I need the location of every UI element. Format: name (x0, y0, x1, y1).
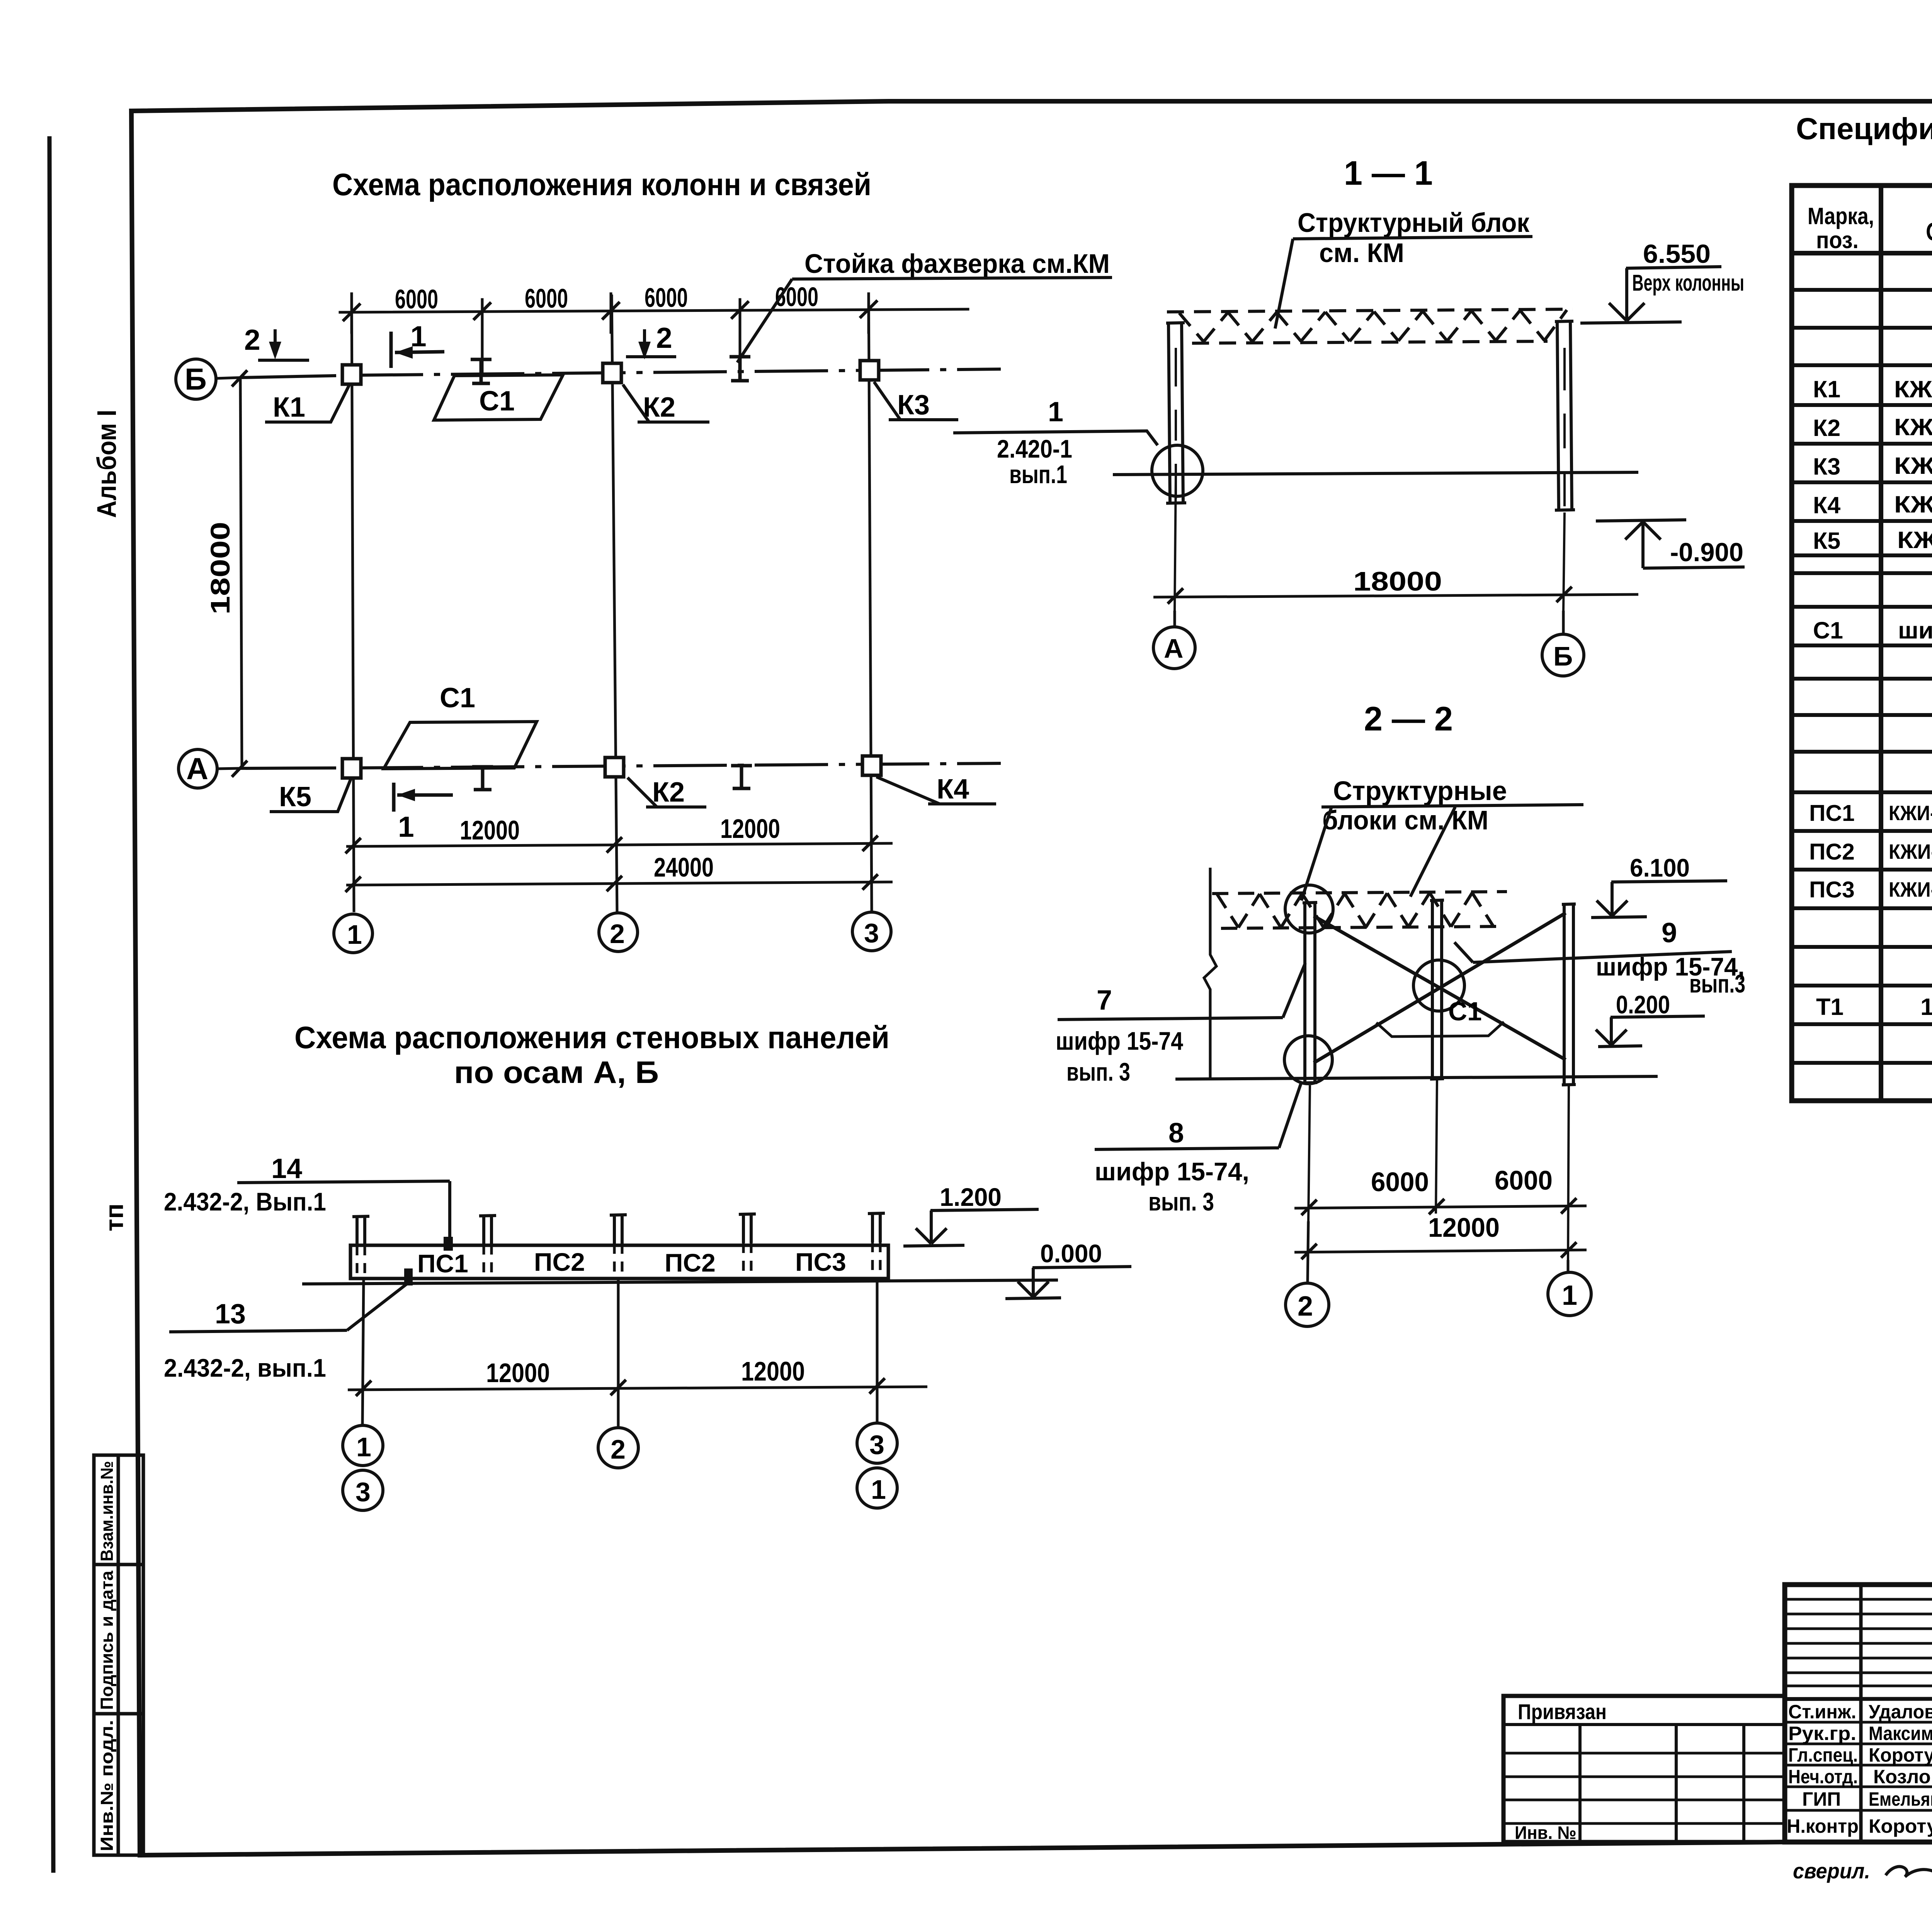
svg-text:К4: К4 (1813, 492, 1840, 518)
svg-text:К2: К2 (652, 777, 685, 808)
row lines (1792, 288, 1932, 292)
svg-text:К3: К3 (897, 390, 930, 421)
truss 2-2 (dashed) (1212, 892, 1507, 928)
upper narrow rows (1785, 1598, 1932, 1601)
inner frame top (131, 101, 1932, 111)
svg-text:6000: 6000 (645, 283, 688, 313)
axis А (bottom) (179, 749, 1001, 788)
svg-text:вып.1: вып.1 (1009, 460, 1067, 489)
vertical grid line axis 2 (612, 295, 617, 912)
sig rows (1785, 1698, 1932, 1699)
svg-text:12000: 12000 (1428, 1212, 1500, 1243)
C1 bracket 2-2 (1376, 1022, 1504, 1037)
svg-text:Спецификация к схемам распо: Спецификация к схемам расположения колон… (1796, 111, 1932, 146)
svg-text:1: 1 (1048, 397, 1063, 427)
svg-text:Емельянов: Емельянов (1869, 1788, 1932, 1810)
svg-text:1 — 1: 1 — 1 (1344, 154, 1433, 192)
svg-text:К3: К3 (1813, 453, 1840, 480)
svg-text:Обозначение: Обозначение (1926, 217, 1932, 246)
svg-text:тп: тп (100, 1204, 128, 1231)
svg-text:Удалова: Удалова (1869, 1701, 1932, 1723)
svg-text:12000: 12000 (720, 814, 780, 844)
svg-text:Подпись и дата: Подпись и дата (97, 1570, 117, 1710)
column K4 (axis 3, А) (862, 756, 881, 775)
svg-text:КЖИ-ПС 635.12-1АIV-Т-11А: КЖИ-ПС 635.12-1АIV-Т-11А (1889, 802, 1932, 825)
svg-text:0.000: 0.000 (1040, 1239, 1102, 1268)
svg-text:1: 1 (356, 1432, 371, 1462)
bottom dimension 12000x2 (346, 843, 893, 846)
svg-text:ПС2: ПС2 (1809, 839, 1855, 865)
svg-text:Верх колонны: Верх колонны (1632, 270, 1744, 296)
column K2 (axis 2, Б) (603, 363, 621, 383)
svg-text:2: 2 (611, 1434, 626, 1464)
svg-text:К5: К5 (1813, 528, 1840, 554)
slash at dim 18000 top (232, 370, 247, 386)
svg-text:А: А (1164, 633, 1184, 664)
dim 12000 (1294, 1250, 1587, 1252)
svg-text:2: 2 (1298, 1291, 1313, 1322)
svg-text:ПС3: ПС3 (795, 1248, 846, 1276)
svg-text:ПС1: ПС1 (417, 1249, 468, 1278)
ground line 2-2 (1175, 1076, 1658, 1079)
svg-text:7: 7 (1097, 985, 1112, 1016)
svg-text:6.100: 6.100 (1630, 853, 1690, 882)
svg-text:Инв. №: Инв. № (1515, 1822, 1577, 1843)
svg-text:3: 3 (864, 918, 879, 948)
dim slashes (344, 305, 359, 320)
svg-text:вып. 3: вып. 3 (1066, 1057, 1130, 1086)
section mark 1 (top) (391, 332, 444, 368)
svg-text:К1: К1 (1813, 376, 1840, 402)
column A (section 1-1) with base circle (1152, 323, 1203, 503)
fachwerk post symbols on axis А (472, 766, 752, 790)
inner frame left (131, 111, 140, 1855)
svg-text:КЖИ- КБП 48- 3-3: КЖИ- КБП 48- 3-3 (1894, 453, 1932, 479)
svg-text:2.432-2, Вып.1: 2.432-2, Вып.1 (164, 1187, 326, 1216)
svg-text:Альбом I: Альбом I (92, 410, 122, 518)
svg-text:Козлов: Козлов (1873, 1766, 1932, 1788)
column K3 (860, 361, 879, 380)
svg-text:12000: 12000 (741, 1356, 805, 1386)
section mark 1 (bottom, near K5) (394, 783, 453, 812)
svg-text:3: 3 (869, 1430, 884, 1460)
svg-text:вып. 3: вып. 3 (1148, 1187, 1214, 1216)
svg-text:Максимов: Максимов (1869, 1723, 1932, 1744)
left reference line with break (2-2) (1204, 868, 1216, 1078)
section mark 2 (top left) (258, 329, 309, 360)
C1 parallelogram on axis Б (434, 375, 563, 420)
svg-text:С1: С1 (1813, 617, 1843, 644)
svg-text:Марка,: Марка, (1808, 203, 1874, 229)
svg-text:2: 2 (656, 322, 672, 354)
bottom dimension 24000 (346, 882, 893, 885)
svg-text:КЖИ- ПС 600,12-1АIV-Т-1А: КЖИ- ПС 600,12-1АIV-Т-1А (1889, 840, 1932, 863)
svg-text:2 — 2: 2 — 2 (1364, 700, 1453, 738)
panel band (350, 1245, 888, 1279)
svg-text:поз.: поз. (1816, 227, 1859, 253)
svg-text:Н.контр: Н.контр (1787, 1815, 1859, 1837)
svg-text:-0.900: -0.900 (1670, 538, 1743, 567)
svg-text:Т1: Т1 (1816, 994, 1844, 1020)
LEFT SIDE VERTICAL TABLE (94, 1455, 143, 1855)
inner frame bottom (140, 1842, 1932, 1855)
18000 vertical dimension (240, 379, 242, 769)
svg-text:Схема расположения колонн и: Схема расположения колонн и связей (332, 167, 871, 202)
ground line (302, 1280, 1058, 1284)
header bottom (1792, 251, 1932, 255)
vertical grid line axis 3 (869, 295, 872, 912)
svg-text:12000: 12000 (460, 815, 520, 845)
svg-text:шифр 15-74: шифр 15-74 (1056, 1027, 1183, 1055)
svg-text:1: 1 (398, 810, 414, 843)
svg-text:К5: К5 (279, 781, 311, 812)
svg-text:Б: Б (185, 362, 207, 396)
axis circles А Б (1-1) (1173, 611, 1176, 627)
svg-text:К1: К1 (273, 392, 305, 423)
column K2 (axis 2, А) (605, 758, 624, 777)
svg-text:К2: К2 (1813, 415, 1840, 441)
column K5 (axis 1, А) (342, 759, 361, 778)
svg-text:3: 3 (355, 1477, 371, 1507)
connection circles 2-2 (1284, 885, 1464, 1084)
svg-text:по осам А, Б: по осам А, Б (454, 1055, 659, 1090)
svg-text:шифр 15-74, вып.3: шифр 15-74, вып.3 (1898, 617, 1932, 644)
extension stubs above dim line (350, 294, 353, 332)
svg-text:Структурные: Структурные (1333, 776, 1507, 806)
svg-text:см. КМ: см. КМ (1319, 238, 1404, 268)
axis circles 1 2 3 (plan bottom) (334, 912, 891, 953)
svg-text:Ст.инж.: Ст.инж. (1788, 1701, 1856, 1723)
truss 1-1 (dashed) (1167, 309, 1573, 343)
svg-text:Структурный блок: Структурный блок (1298, 208, 1530, 238)
dashed posts inside band (357, 1242, 880, 1279)
top dimension line 4x6000 (340, 309, 968, 312)
X bracing 2-2 (1314, 913, 1566, 1063)
column Б (section 1-1) (1555, 321, 1575, 510)
svg-text:ГИП: ГИП (1802, 1788, 1841, 1810)
svg-text:Неч.отд.: Неч.отд. (1788, 1766, 1858, 1788)
axis Б (top) (176, 359, 1001, 399)
svg-text:ПС1: ПС1 (1809, 800, 1855, 826)
svg-text:13: 13 (215, 1299, 246, 1330)
svg-text:А: А (186, 751, 208, 786)
outer left border line (49, 138, 53, 1871)
svg-text:ПС2: ПС2 (534, 1248, 585, 1276)
svg-text:КЖИ-ПС 635.12-1АIV-Т-21А: КЖИ-ПС 635.12-1АIV-Т-21А (1889, 878, 1932, 901)
svg-text:Привязан: Привязан (1518, 1699, 1607, 1724)
svg-text:Взам.инв.№: Взам.инв.№ (97, 1461, 117, 1561)
svg-text:С1: С1 (1448, 997, 1482, 1026)
svg-text:сверил.: сверил. (1793, 1859, 1870, 1883)
svg-text:КЖИ - КБП 48 -3-5: КЖИ - КБП 48 -3-5 (1897, 527, 1932, 553)
vertical dividers signature part (1859, 1585, 1863, 1842)
svg-text:ПС3: ПС3 (1809, 877, 1855, 902)
svg-text:К4: К4 (937, 774, 969, 805)
svg-text:6000: 6000 (395, 284, 438, 314)
svg-text:1: 1 (410, 320, 427, 352)
section mark 2 (near axis 2) (626, 329, 676, 359)
svg-text:2.420-1: 2.420-1 (997, 434, 1072, 463)
axis circles (elevation) (343, 1423, 897, 1510)
svg-text:1. 439-2: 1. 439-2 (1920, 994, 1932, 1020)
svg-text:1: 1 (871, 1474, 886, 1505)
svg-text:24000: 24000 (654, 852, 714, 882)
svg-text:12000: 12000 (486, 1358, 550, 1388)
svg-text:Стойка фахверка см.КМ: Стойка фахверка см.КМ (804, 249, 1110, 279)
svg-text:ПС2: ПС2 (665, 1248, 716, 1277)
dims 2-2: 6000 6000 (1308, 1085, 1310, 1221)
center dashed axis (617, 1279, 620, 1388)
svg-text:Инв.№ подл.: Инв.№ подл. (97, 1720, 117, 1851)
svg-text:18000: 18000 (205, 522, 235, 615)
vertical grid line axis 1 (352, 295, 354, 912)
svg-text:0.200: 0.200 (1616, 990, 1670, 1019)
svg-text:18000: 18000 (1353, 566, 1442, 596)
svg-text:КЖИ- КБП 48 - 3-1: КЖИ- КБП 48 - 3-1 (1894, 376, 1932, 402)
svg-text:вып.3: вып.3 (1689, 969, 1745, 998)
svg-text:6000: 6000 (1371, 1167, 1429, 1197)
axis circles 2-2 (1308, 1221, 1308, 1282)
svg-text:Рук.гр.: Рук.гр. (1788, 1723, 1856, 1744)
svg-text:9: 9 (1662, 918, 1677, 948)
posts above band (352, 1213, 885, 1245)
svg-text:Коротун: Коротун (1869, 1744, 1932, 1766)
svg-text:14: 14 (271, 1153, 302, 1184)
-0.900 elevation mark (1596, 520, 1745, 568)
svg-text:2.432-2, вып.1: 2.432-2, вып.1 (164, 1353, 326, 1382)
dim line 12000 12000 (elevation) (348, 1387, 927, 1390)
svg-text:С1: С1 (440, 683, 475, 713)
svg-text:КЖИ - КБП 48-3-4: КЖИ - КБП 48-3-4 (1894, 491, 1932, 518)
svg-text:Б: Б (1553, 641, 1573, 671)
svg-text:1: 1 (1562, 1280, 1577, 1311)
svg-text:Коротун: Коротун (1869, 1815, 1932, 1837)
svg-text:1.200: 1.200 (940, 1183, 1002, 1211)
svg-text:2: 2 (244, 323, 260, 356)
svg-text:2: 2 (610, 919, 625, 949)
svg-text:блоки см. КМ: блоки см. КМ (1322, 805, 1488, 835)
svg-text:6000: 6000 (1495, 1165, 1553, 1195)
svg-text:8: 8 (1168, 1118, 1184, 1149)
column K1 (342, 365, 361, 384)
привязан block (1503, 1696, 1784, 1842)
18000 dimension (1-1) (1175, 476, 1176, 611)
svg-text:6000: 6000 (525, 283, 568, 313)
svg-text:Гл.спец.: Гл.спец. (1788, 1744, 1858, 1766)
level line through columns (1-1) (1113, 472, 1638, 475)
main outline (1785, 1585, 1932, 1842)
svg-text:Схема расположения стеновых па: Схема расположения стеновых панелей (294, 1020, 889, 1055)
svg-text:С1: С1 (479, 386, 515, 417)
svg-text:шифр 15-74,: шифр 15-74, (1095, 1157, 1249, 1186)
verticals (1879, 186, 1883, 1101)
svg-text:6.550: 6.550 (1643, 239, 1711, 269)
table outer (1792, 186, 1932, 1101)
fachwerk post symbols on axis Б (471, 357, 750, 383)
svg-text:1: 1 (347, 919, 362, 950)
svg-text:КЖИ - КБП48 - 3-2: КЖИ - КБП48 - 3-2 (1894, 414, 1932, 440)
C1 parallelogram on axis А (384, 722, 537, 769)
axis extension lines down (362, 1279, 364, 1425)
columns 2-2 (1303, 900, 1576, 1085)
